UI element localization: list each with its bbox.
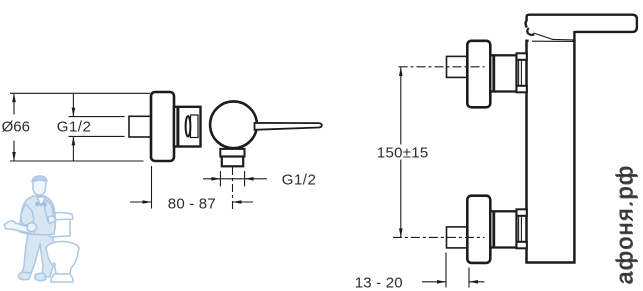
dim line bottom O66 [10,160,144,162]
top centerline dashed [399,66,485,68]
80-87 dim line right [233,201,254,203]
dim line top O66 [10,92,150,94]
connector body [174,107,201,147]
svg-text:афоня.рф: афоня.рф [612,165,638,285]
hook curl [527,28,534,35]
toilet bowl rim [46,242,79,257]
svg-text:Ø66: Ø66 [2,118,30,135]
diagonal thin [534,33,553,39]
outlet centerline dashed [232,167,234,210]
ring bar [176,107,179,147]
bowtie [36,202,46,206]
150+-15 dimension [400,67,402,144]
svg-text:G1/2: G1/2 [57,118,92,135]
shirt [37,197,46,206]
inner nut rect [191,115,199,138]
bottom ring bar [492,211,495,247]
escutcheon O66 [151,92,174,161]
bottom connector [490,211,516,247]
outlet lower [222,157,243,167]
seam line 2 [532,40,574,42]
step segment [573,31,575,42]
bottom twin lines [518,216,520,242]
top connector [490,55,516,91]
lever handle [255,123,322,130]
bottom centerline dashed [393,236,485,238]
80-87 extension line [151,166,153,209]
top ring bar [492,55,495,91]
right arm to tank [44,199,54,222]
shoes [18,272,31,280]
head [33,177,46,195]
svg-text:13 - 20: 13 - 20 [355,275,403,291]
watermark text [611,164,638,285]
hand on tank [48,216,55,223]
outlet flange [220,149,244,157]
top inlet stub [447,56,468,77]
seam line 1 [552,38,574,41]
legs [22,232,54,277]
O66 dimension arrows [13,94,15,115]
top twin lines [518,60,520,86]
handle bar [526,15,637,32]
body [527,41,575,263]
inner ellipse [186,116,191,136]
pipe stub G1/2 [129,116,152,137]
left arm [21,204,34,225]
outlet dim line [203,178,267,180]
hair [32,176,47,182]
80-87 dim line left [130,201,152,203]
wrench [4,221,36,234]
bottom inlet stub [447,227,468,248]
torso / jacket [20,196,56,235]
bottom escutcheon [467,196,490,263]
13-20 dimension [445,253,447,288]
erase body top edge [529,39,573,43]
outlet dim ticks [219,171,221,187]
toilet bowl body [47,252,78,274]
top escutcheon [467,41,490,108]
ball [210,101,257,148]
svg-text:80 - 87: 80 - 87 [168,195,216,212]
toilet base [51,274,73,282]
toilet tank [50,219,70,237]
plumber watermark logo [4,176,79,282]
G1/2 dimension arrows [72,94,74,117]
G1/2 extension lines [69,116,125,118]
hand with wrench [27,223,37,232]
top tabs [517,53,527,60]
svg-text:150±15: 150±15 [377,144,429,161]
svg-text:G1/2: G1/2 [282,172,317,189]
bottom tabs [517,209,527,216]
